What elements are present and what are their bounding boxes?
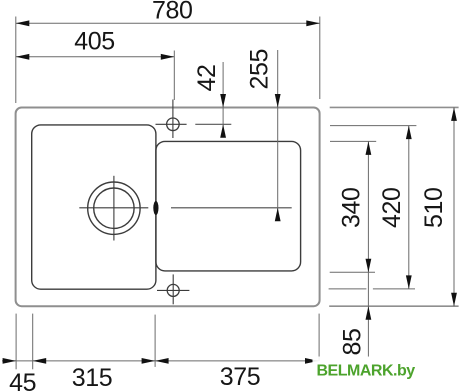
rim bottom extension right <box>329 305 458 307</box>
arrow 420 bottom <box>406 275 412 289</box>
arrow 340 bottom <box>366 259 372 273</box>
arrow 375 right <box>305 358 319 364</box>
rim top extension right <box>330 106 459 108</box>
bottom extension line bowl left <box>32 314 34 370</box>
drain inner circle <box>94 188 134 228</box>
bowl bottom extension right (two segments) <box>329 288 367 290</box>
drainer bottom extension right <box>330 271 375 273</box>
svg-text:780: 780 <box>152 0 193 24</box>
svg-text:45: 45 <box>9 369 36 392</box>
arrow 405 right <box>161 54 175 60</box>
svg-text:375: 375 <box>220 363 261 391</box>
arrow 510 bottom <box>451 293 457 307</box>
arrow 405 left <box>16 54 29 60</box>
arrow 420 top <box>406 126 412 140</box>
bottom extension line right <box>318 314 320 361</box>
arrow at bowl left edge <box>33 358 47 364</box>
overflow mark on divider <box>153 201 158 215</box>
drain crosshair vertical <box>113 176 115 241</box>
bowl top extension right <box>330 125 416 127</box>
svg-text:315: 315 <box>72 364 113 392</box>
top tap hole crosshair vertical <box>172 100 174 139</box>
bottom dimension line <box>2 360 319 362</box>
svg-text:510: 510 <box>420 187 448 228</box>
arrow 255 top <box>275 94 281 108</box>
arrow 42 bottom <box>220 124 226 138</box>
top hole centre extension toward 42 dim <box>195 123 231 125</box>
bottom tap hole <box>167 284 179 296</box>
arrow 375 left <box>155 358 169 364</box>
extension line left (780/405) <box>15 17 17 104</box>
drainer outline <box>156 141 301 271</box>
arrow 780 left <box>16 20 29 26</box>
watermark background <box>313 357 428 373</box>
arrow 85 <box>366 306 372 320</box>
top tap hole crosshair horizontal <box>156 123 187 125</box>
bottom tap hole crosshair vertical <box>172 274 174 304</box>
arrow 45 outside left <box>3 358 17 364</box>
dimension line 340 plus 85 <box>367 141 369 357</box>
svg-text:340: 340 <box>338 187 366 228</box>
extension line 405 right <box>173 51 175 101</box>
dimension line 255 <box>277 50 279 221</box>
bottom tap hole crosshair horizontal <box>157 289 189 291</box>
bottom extension line rim left <box>15 314 17 370</box>
svg-text:85: 85 <box>339 328 367 355</box>
drainer top extension right <box>330 140 376 142</box>
bowl outline <box>32 125 156 289</box>
drain outer circle <box>88 182 140 234</box>
arrow 315 right <box>142 358 156 364</box>
bottom extension line divider <box>154 315 156 367</box>
sink rim outer outline <box>16 108 320 307</box>
svg-text:42: 42 <box>193 64 221 91</box>
dimension line 42 <box>222 62 224 137</box>
dimension line 420 <box>408 126 410 289</box>
arrow 340 top <box>366 141 372 155</box>
dimension line 510 <box>453 107 455 306</box>
dimension line 405 <box>16 56 175 58</box>
drain crosshair horizontal <box>79 207 148 209</box>
arrow 780 right <box>306 20 320 26</box>
drainer centre reference line <box>171 207 292 209</box>
top tap hole <box>167 118 180 131</box>
svg-text:420: 420 <box>378 187 406 228</box>
arrow 255 bottom <box>275 208 281 222</box>
svg-text:405: 405 <box>74 28 115 56</box>
arrow 510 top <box>451 107 457 121</box>
arrow 42 top <box>220 94 226 108</box>
dimension line 780 <box>16 22 320 24</box>
svg-text:255: 255 <box>246 49 274 90</box>
svg-text:BELMARK.by: BELMARK.by <box>317 363 416 380</box>
extension line right (780) <box>319 17 321 100</box>
